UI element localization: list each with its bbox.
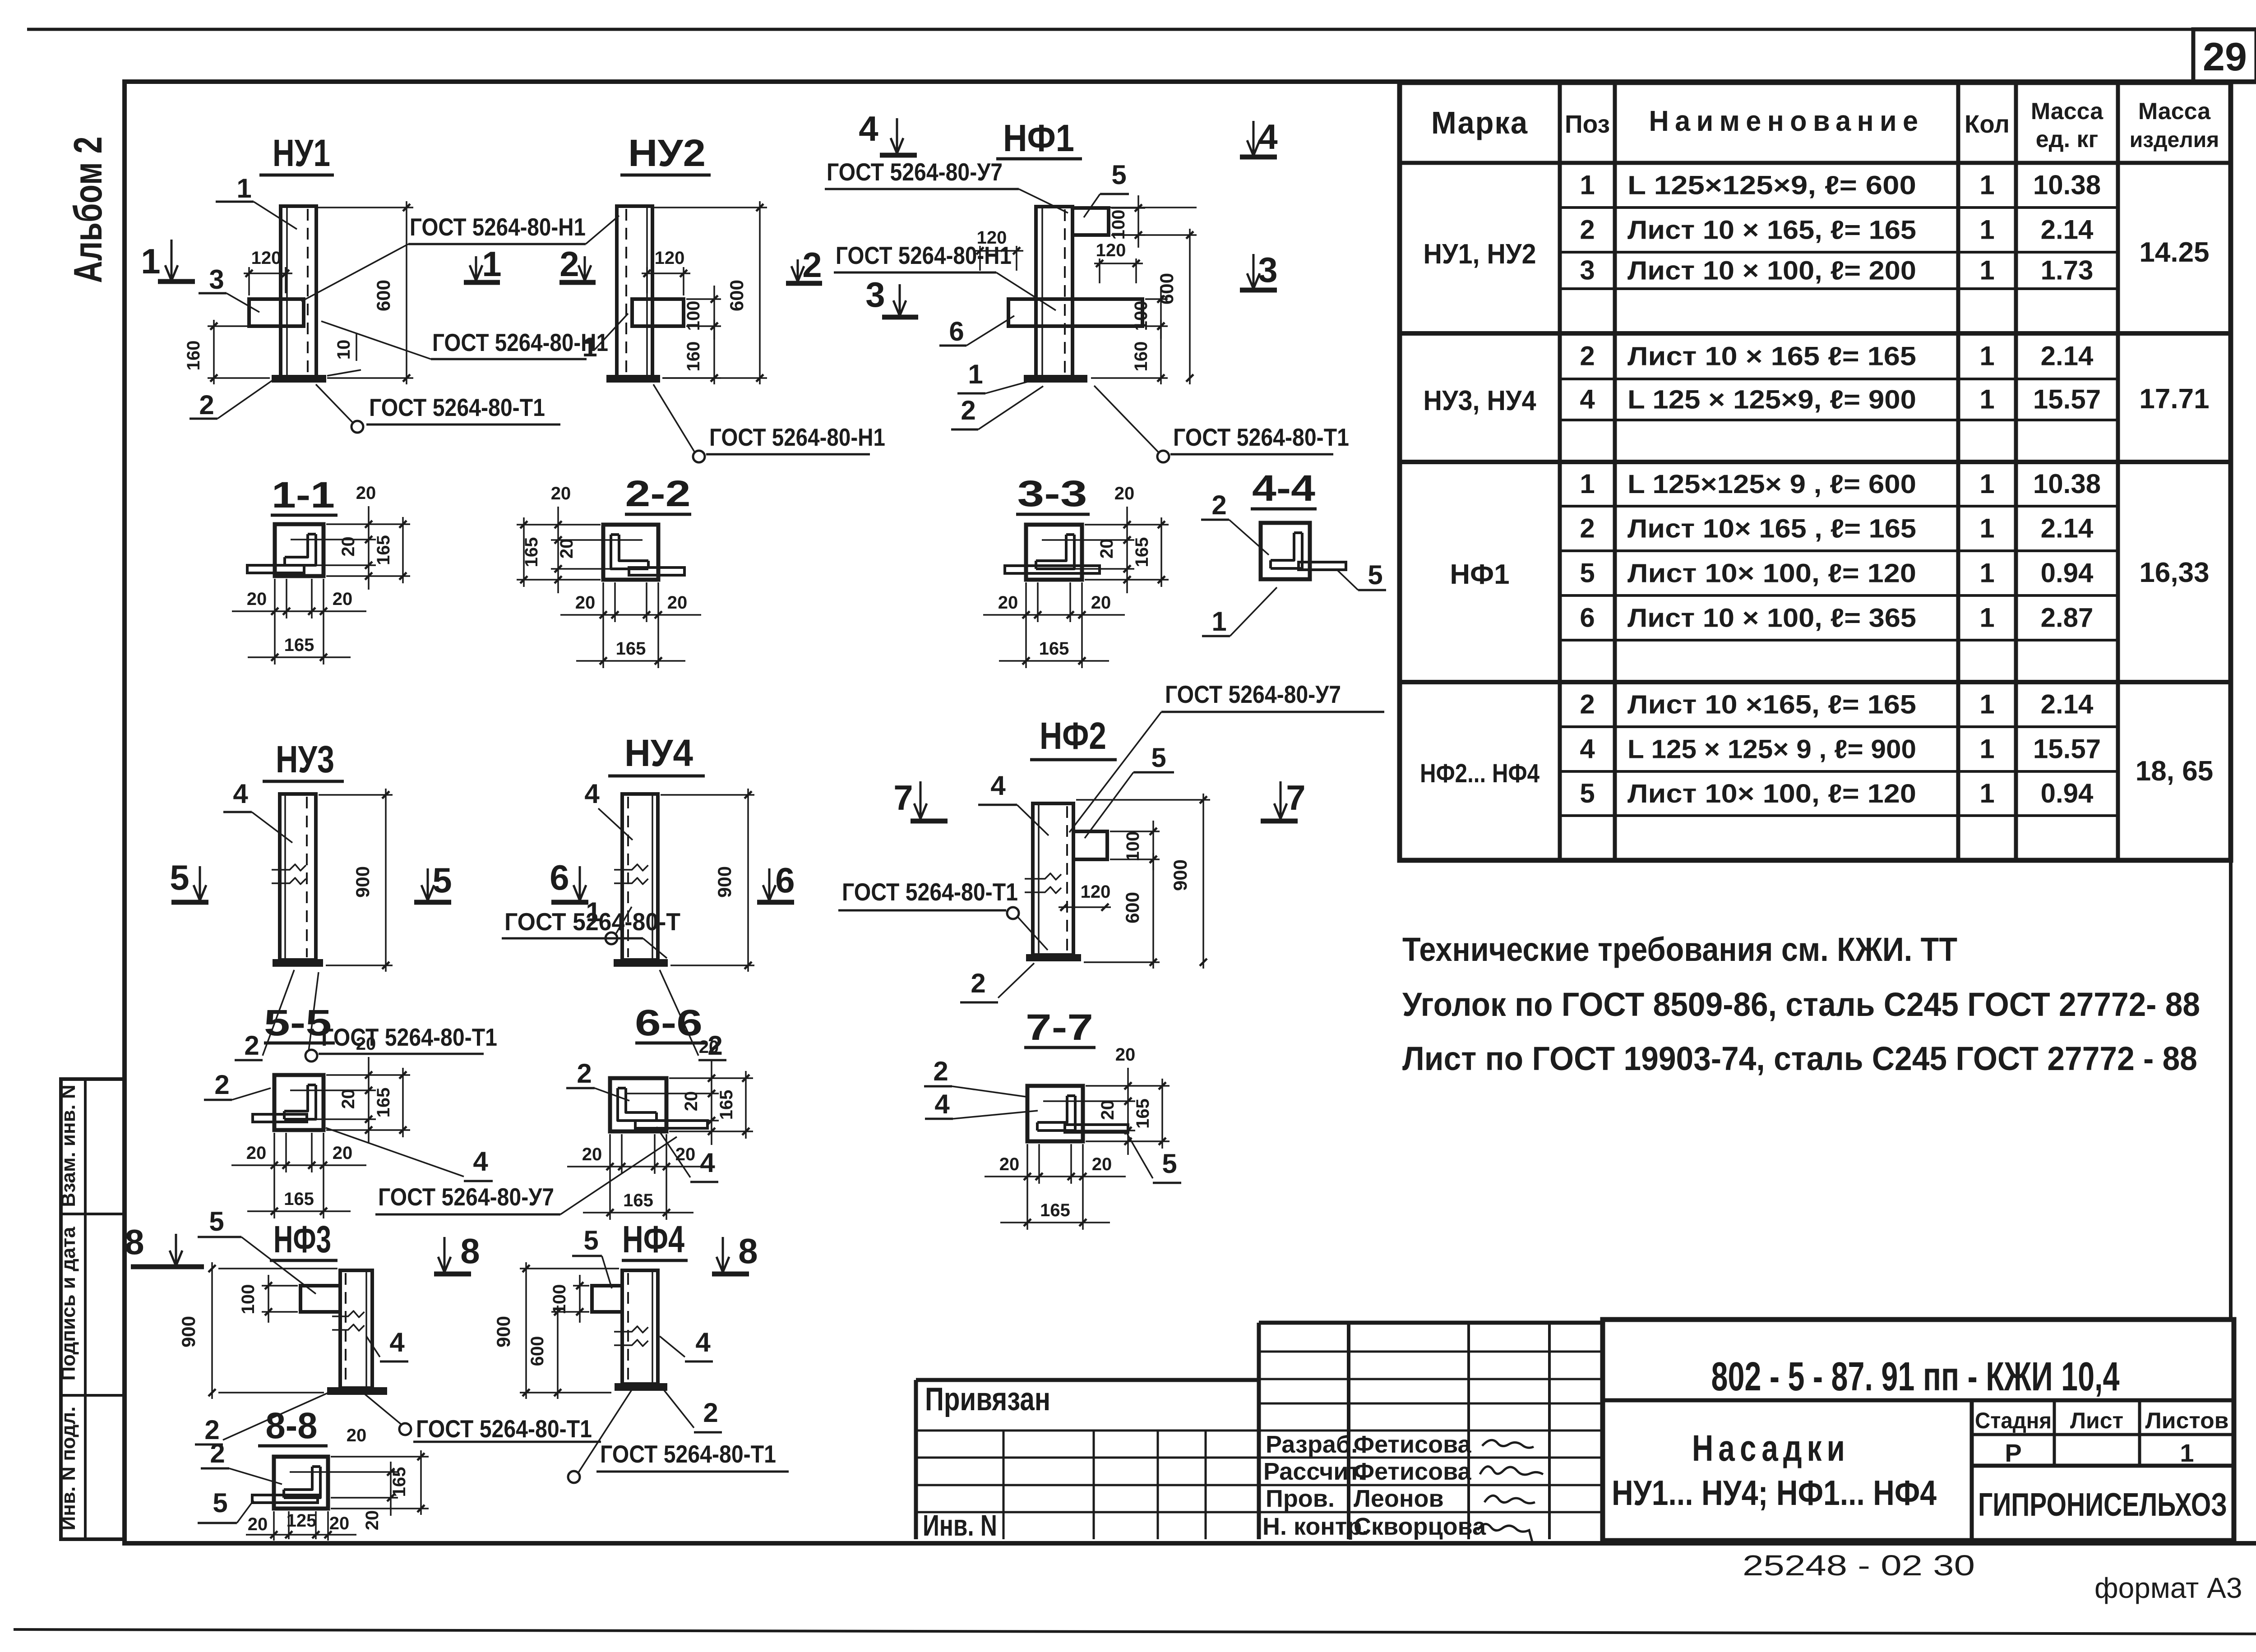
svg-text:20: 20 <box>582 1144 602 1164</box>
line from table to title block <box>2229 860 2233 1320</box>
svg-text:2: 2 <box>214 1070 229 1100</box>
parts table header row <box>1400 161 2231 165</box>
svg-text:ГИПРОНИСЕЛЬХОЗ: ГИПРОНИСЕЛЬХОЗ <box>1978 1487 2227 1523</box>
svg-text:165: 165 <box>1039 639 1069 659</box>
svg-text:165: 165 <box>522 537 541 568</box>
svg-text:ГОСТ 5264-80-Н1: ГОСТ 5264-80-Н1 <box>836 241 1012 269</box>
svg-text:Наименование: Наименование <box>1649 105 1924 137</box>
svg-text:Насадки: Насадки <box>1692 1428 1850 1469</box>
NF3 plate poz5 left <box>300 1286 340 1312</box>
svg-text:1: 1 <box>141 241 160 281</box>
svg-text:10.38: 10.38 <box>2033 170 2101 200</box>
svg-text:165: 165 <box>374 1088 393 1118</box>
svg-text:165: 165 <box>623 1191 653 1210</box>
svg-text:160: 160 <box>684 341 703 372</box>
svg-text:0.94: 0.94 <box>2041 778 2094 808</box>
svg-text:900: 900 <box>493 1316 514 1347</box>
title block signature section grid <box>1257 1323 1261 1539</box>
svg-text:НФ3: НФ3 <box>273 1218 331 1260</box>
svg-text:НФ1: НФ1 <box>1003 117 1074 159</box>
svg-text:ед. кг: ед. кг <box>2036 126 2099 152</box>
svg-text:4: 4 <box>700 1148 715 1178</box>
title block outer frame <box>1603 1320 2234 1541</box>
svg-text:100: 100 <box>238 1284 258 1315</box>
svg-text:3: 3 <box>865 275 885 314</box>
svg-text:5: 5 <box>213 1488 227 1518</box>
svg-text:Фетисова: Фетисова <box>1354 1431 1472 1458</box>
NU2 angle column <box>617 206 652 377</box>
svg-text:5: 5 <box>583 1225 598 1255</box>
svg-text:6: 6 <box>949 316 964 346</box>
NF4 dims 100 600 900 <box>573 1285 589 1287</box>
svg-text:Лист 10 × 100, ℓ= 365: Лист 10 × 100, ℓ= 365 <box>1627 604 1916 633</box>
section mark arrow 3 far right <box>1253 254 1255 289</box>
svg-text:4: 4 <box>389 1327 405 1357</box>
svg-text:1: 1 <box>1979 734 1994 764</box>
svg-text:900: 900 <box>1170 859 1191 891</box>
svg-text:Взам. инв. N: Взам. инв. N <box>57 1084 79 1207</box>
svg-text:20: 20 <box>362 1510 382 1531</box>
svg-text:Лист 10 ×165, ℓ= 165: Лист 10 ×165, ℓ= 165 <box>1627 690 1916 720</box>
section mark arrow 2 right of NU2 <box>797 259 799 281</box>
svg-text:2: 2 <box>961 395 975 425</box>
svg-text:802 - 5 - 87. 91 пп - КЖИ 10,: 802 - 5 - 87. 91 пп - КЖИ 10,4 <box>1711 1354 2120 1399</box>
svg-text:1: 1 <box>1979 384 1994 415</box>
svg-text:4: 4 <box>859 109 878 148</box>
svg-text:20: 20 <box>247 589 267 609</box>
section mark arrow 5 right of NU3 <box>427 868 429 900</box>
svg-text:20: 20 <box>347 1426 367 1445</box>
svg-text:Лист по ГОСТ 19903-74, стал: Лист по ГОСТ 19903-74, сталь С245 ГОСТ 2… <box>1402 1040 2197 1077</box>
svg-text:2: 2 <box>703 1398 718 1428</box>
svg-text:20: 20 <box>329 1514 350 1533</box>
svg-text:1.73: 1.73 <box>2041 255 2094 286</box>
svg-text:3: 3 <box>1258 250 1277 290</box>
svg-text:120: 120 <box>1081 882 1111 902</box>
svg-text:165: 165 <box>717 1090 736 1120</box>
section 3-3 angle section <box>1026 525 1082 580</box>
svg-text:2: 2 <box>1580 689 1595 720</box>
svg-text:120: 120 <box>655 248 685 268</box>
svg-text:4: 4 <box>1258 117 1277 157</box>
svg-text:20: 20 <box>551 484 571 503</box>
svg-text:1: 1 <box>1979 778 1994 808</box>
NU1 plate poz3 <box>249 299 304 326</box>
svg-text:165: 165 <box>1040 1200 1070 1220</box>
svg-text:165: 165 <box>389 1467 409 1497</box>
svg-text:20: 20 <box>1097 539 1117 559</box>
NF3 angle column <box>340 1270 372 1388</box>
svg-text:20: 20 <box>246 1143 267 1163</box>
page bottom edge line <box>14 1629 2256 1634</box>
svg-text:Альбом 2: Альбом 2 <box>65 137 110 283</box>
svg-text:165: 165 <box>284 635 314 655</box>
svg-text:125: 125 <box>287 1511 317 1531</box>
svg-text:10: 10 <box>334 340 354 360</box>
svg-text:1: 1 <box>1979 170 1994 200</box>
NF4 plate poz5 left <box>592 1286 622 1312</box>
svg-text:165: 165 <box>1133 1098 1153 1129</box>
NF1 angle column <box>1036 207 1073 377</box>
svg-text:2: 2 <box>199 390 214 420</box>
svg-text:ГОСТ 5264-80-Т1: ГОСТ 5264-80-Т1 <box>600 1440 776 1468</box>
svg-text:1-1: 1-1 <box>272 475 335 516</box>
NF1 dim 100 top right <box>1111 207 1145 209</box>
NU1 angle column <box>281 206 316 377</box>
svg-text:1: 1 <box>1979 603 1994 633</box>
svg-text:2: 2 <box>559 244 579 284</box>
svg-text:165: 165 <box>284 1189 314 1209</box>
title block left attachment section <box>914 1380 918 1539</box>
svg-text:L 125 × 125×9, ℓ= 900: L 125 × 125×9, ℓ= 900 <box>1627 385 1916 415</box>
svg-text:4: 4 <box>1580 734 1595 764</box>
svg-text:0.94: 0.94 <box>2041 558 2094 588</box>
svg-text:5: 5 <box>1162 1149 1177 1179</box>
svg-text:1: 1 <box>2180 1439 2194 1467</box>
svg-text:17.71: 17.71 <box>2139 383 2209 415</box>
svg-text:16,33: 16,33 <box>2139 557 2209 588</box>
NU1 dim 600 <box>318 207 413 208</box>
svg-text:Лист 10 × 165, ℓ= 165: Лист 10 × 165, ℓ= 165 <box>1627 216 1916 245</box>
svg-text:6: 6 <box>775 860 795 900</box>
svg-text:20: 20 <box>356 483 376 503</box>
svg-text:1: 1 <box>1979 513 1994 544</box>
svg-text:1: 1 <box>1979 215 1994 245</box>
section 7-7 angle section <box>1027 1086 1083 1141</box>
NU2 dim 160 <box>713 320 715 384</box>
svg-text:Р: Р <box>2005 1439 2021 1467</box>
svg-text:100: 100 <box>1131 301 1151 331</box>
svg-text:НФ4: НФ4 <box>622 1218 684 1260</box>
svg-text:600: 600 <box>1122 892 1143 923</box>
svg-text:8: 8 <box>460 1231 480 1271</box>
svg-text:7: 7 <box>1286 778 1305 817</box>
svg-text:15.57: 15.57 <box>2033 734 2101 764</box>
svg-text:НУ1, НУ2: НУ1, НУ2 <box>1424 239 1536 270</box>
svg-text:165: 165 <box>1132 537 1152 568</box>
svg-text:120: 120 <box>251 248 282 268</box>
svg-text:7-7: 7-7 <box>1026 1007 1093 1048</box>
NU3 angle column <box>280 794 316 960</box>
section 5-5 dims <box>326 1074 410 1076</box>
svg-text:Поз: Поз <box>1565 110 1610 138</box>
section 7-7 dims <box>1086 1085 1170 1087</box>
svg-text:4: 4 <box>695 1327 711 1357</box>
svg-text:600: 600 <box>527 1336 547 1366</box>
section mark arrow 8 right of NF4 <box>722 1237 724 1272</box>
NU4 dim 900 <box>661 794 754 796</box>
svg-text:Лист 10 × 165 ℓ= 165: Лист 10 × 165 ℓ= 165 <box>1627 342 1916 371</box>
svg-text:5: 5 <box>432 860 452 900</box>
svg-text:20: 20 <box>333 589 353 609</box>
svg-text:2.87: 2.87 <box>2041 603 2094 633</box>
svg-text:1: 1 <box>586 897 601 927</box>
svg-text:Кол: Кол <box>1965 110 2010 138</box>
NF2 dim 900 <box>1076 799 1210 801</box>
section mark arrow 1 right of NU1 <box>475 256 477 281</box>
NF3 dim 900 <box>218 1268 337 1269</box>
section 1-1 angle section <box>275 524 324 576</box>
NF1 dim 900 right <box>1076 207 1197 208</box>
section 8-8 angle section <box>274 1457 328 1509</box>
svg-text:Скворцова: Скворцова <box>1354 1513 1486 1540</box>
svg-text:Инв. N: Инв. N <box>923 1509 997 1542</box>
svg-text:Привязан: Привязан <box>925 1381 1050 1417</box>
svg-text:600: 600 <box>373 280 394 311</box>
svg-text:1: 1 <box>1580 170 1595 200</box>
section 8-8 bottom dims 20 125 20 <box>273 1511 275 1541</box>
svg-text:14.25: 14.25 <box>2139 237 2209 268</box>
title block stage cells <box>1972 1433 2234 1436</box>
svg-text:2: 2 <box>244 1030 259 1061</box>
svg-text:165: 165 <box>616 639 646 659</box>
svg-text:5: 5 <box>170 858 189 897</box>
NF2 angle column <box>1033 803 1073 955</box>
svg-text:20: 20 <box>333 1143 353 1163</box>
svg-text:20: 20 <box>1115 1045 1136 1065</box>
svg-text:НУ4: НУ4 <box>624 732 693 774</box>
svg-text:900: 900 <box>352 866 373 898</box>
section 2-2 angle section <box>603 525 658 580</box>
svg-text:5: 5 <box>209 1206 224 1237</box>
svg-text:25248 - 02 30: 25248 - 02 30 <box>1743 1549 1975 1582</box>
NU1 dim 10 <box>327 370 361 376</box>
svg-text:Технические требования см.: Технические требования см. КЖИ. ТТ <box>1402 931 1957 968</box>
svg-text:6: 6 <box>1580 603 1595 633</box>
svg-text:1: 1 <box>482 244 501 284</box>
svg-text:100: 100 <box>1123 831 1143 862</box>
svg-text:Стадня: Стадня <box>1975 1408 2052 1433</box>
svg-text:1: 1 <box>582 332 597 362</box>
section 6-6 angle section <box>610 1078 666 1131</box>
NF2 plate poz5 right <box>1073 831 1107 859</box>
section 2-2 dims <box>517 524 601 526</box>
section 8-8 right dims <box>331 1456 429 1458</box>
svg-text:165: 165 <box>374 535 393 565</box>
svg-text:1: 1 <box>1979 255 1994 286</box>
svg-text:6: 6 <box>550 858 569 897</box>
svg-text:НУ2: НУ2 <box>628 132 706 174</box>
svg-text:20: 20 <box>356 1034 376 1054</box>
svg-text:Лист 10× 165 , ℓ= 165: Лист 10× 165 , ℓ= 165 <box>1627 514 1916 544</box>
NF2 dim 100 <box>1110 831 1160 832</box>
NF1 plate poz5 top right <box>1073 208 1109 235</box>
svg-text:4: 4 <box>934 1089 950 1119</box>
svg-text:НУ3, НУ4: НУ3, НУ4 <box>1424 385 1536 416</box>
svg-text:1: 1 <box>236 173 251 203</box>
svg-text:НУ1... НУ4; НФ1... НФ4: НУ1... НУ4; НФ1... НФ4 <box>1612 1473 1937 1513</box>
svg-text:Масса: Масса <box>2138 98 2211 125</box>
svg-text:2: 2 <box>1580 341 1595 371</box>
svg-text:1: 1 <box>1580 469 1595 499</box>
svg-text:20: 20 <box>998 593 1018 613</box>
svg-text:2: 2 <box>577 1058 592 1089</box>
NF3 dim 100 <box>262 1285 298 1287</box>
NF1 dim 160 <box>1160 320 1162 384</box>
svg-text:20: 20 <box>557 539 577 559</box>
NU2 dim 100 <box>686 298 721 300</box>
svg-text:1: 1 <box>1979 689 1994 720</box>
svg-text:формат А3: формат А3 <box>2094 1572 2242 1604</box>
svg-text:3: 3 <box>1580 255 1595 286</box>
svg-text:L 125×125×9, ℓ= 600: L 125×125×9, ℓ= 600 <box>1627 171 1916 200</box>
svg-text:160: 160 <box>184 341 203 371</box>
svg-text:900: 900 <box>178 1316 199 1347</box>
svg-text:Листов: Листов <box>2145 1408 2229 1433</box>
svg-text:160: 160 <box>1131 341 1151 372</box>
svg-text:2: 2 <box>1580 215 1595 245</box>
svg-text:2: 2 <box>1580 513 1595 544</box>
svg-text:4: 4 <box>990 771 1006 801</box>
svg-text:ГОСТ 5264-80-Т1: ГОСТ 5264-80-Т1 <box>842 878 1018 906</box>
NU4 angle column <box>622 794 658 960</box>
section mark arrow 4 far right <box>1253 121 1255 156</box>
NF1 dim 600 <box>1111 234 1197 236</box>
svg-text:20: 20 <box>675 1144 696 1164</box>
svg-text:4: 4 <box>1580 384 1595 415</box>
svg-text:НФ2... НФ4: НФ2... НФ4 <box>1420 759 1539 788</box>
svg-text:ГОСТ 5264-80-Т1: ГОСТ 5264-80-Т1 <box>1173 423 1349 451</box>
section 1-1 dims <box>326 523 410 525</box>
title block name cell <box>1970 1400 1974 1541</box>
svg-text:НФ2: НФ2 <box>1040 715 1106 757</box>
svg-text:L 125×125× 9 , ℓ= 600: L 125×125× 9 , ℓ= 600 <box>1627 470 1916 499</box>
svg-text:2: 2 <box>210 1438 225 1468</box>
svg-text:20: 20 <box>681 1091 701 1112</box>
svg-text:29: 29 <box>2203 34 2247 79</box>
section 5-5 angle section <box>274 1075 324 1130</box>
svg-text:Марка: Марка <box>1431 105 1528 140</box>
svg-text:Леонов: Леонов <box>1354 1485 1444 1512</box>
svg-text:L 125 × 125× 9 , ℓ= 900: L 125 × 125× 9 , ℓ= 900 <box>1627 735 1916 764</box>
svg-text:18, 65: 18, 65 <box>2136 756 2213 787</box>
svg-text:100: 100 <box>684 301 703 331</box>
svg-text:Лист 10× 100, ℓ= 120: Лист 10× 100, ℓ= 120 <box>1627 779 1916 808</box>
svg-text:4: 4 <box>233 779 248 809</box>
svg-text:20: 20 <box>699 1037 719 1057</box>
svg-text:3-3: 3-3 <box>1017 473 1087 514</box>
svg-text:20: 20 <box>1092 1154 1112 1174</box>
svg-text:ГОСТ 5264-80-У7: ГОСТ 5264-80-У7 <box>1165 680 1341 708</box>
section mark arrow 6 right of NU4 <box>768 868 771 900</box>
svg-text:ГОСТ 5264-80-Н1: ГОСТ 5264-80-Н1 <box>709 423 885 451</box>
svg-text:5: 5 <box>1111 160 1126 190</box>
svg-text:4: 4 <box>473 1146 488 1177</box>
svg-text:Н. контр.: Н. контр. <box>1262 1513 1368 1540</box>
section 3-3 dims <box>1085 524 1169 526</box>
svg-text:20: 20 <box>248 1514 268 1534</box>
parts table row lines <box>1560 206 2118 209</box>
section 6-6 dims <box>669 1077 753 1079</box>
signature squiggles <box>1482 1440 1534 1448</box>
page top edge line <box>27 28 2256 31</box>
svg-text:2.14: 2.14 <box>2041 689 2094 720</box>
svg-text:Фетисова: Фетисова <box>1354 1458 1472 1485</box>
svg-text:Подпись и дата: Подпись и дата <box>57 1227 79 1380</box>
svg-text:2: 2 <box>802 245 822 285</box>
section mark arrow 7 right of NF2 <box>1280 781 1282 819</box>
svg-text:8: 8 <box>125 1222 144 1262</box>
svg-text:20: 20 <box>1091 593 1111 613</box>
svg-text:8-8: 8-8 <box>266 1405 318 1446</box>
NF1 dim 100 at plate6 <box>1145 298 1168 300</box>
svg-text:1: 1 <box>1979 341 1994 371</box>
svg-text:2: 2 <box>933 1056 948 1086</box>
svg-text:Лист 10 × 100, ℓ= 200: Лист 10 × 100, ℓ= 200 <box>1627 256 1916 286</box>
svg-text:6-6: 6-6 <box>635 1002 703 1043</box>
svg-text:НФ1: НФ1 <box>1450 559 1509 590</box>
svg-text:5-5: 5-5 <box>264 1002 332 1043</box>
svg-text:1: 1 <box>968 359 983 389</box>
svg-text:1: 1 <box>1979 469 1994 499</box>
svg-text:20: 20 <box>667 593 688 613</box>
svg-text:2.14: 2.14 <box>2041 215 2094 245</box>
svg-text:10.38: 10.38 <box>2033 469 2101 499</box>
svg-text:3: 3 <box>209 264 224 295</box>
svg-text:Уголок по ГОСТ 8509-86, ста: Уголок по ГОСТ 8509-86, сталь С245 ГОСТ … <box>1402 986 2200 1023</box>
svg-text:Рассчит.: Рассчит. <box>1263 1458 1365 1485</box>
svg-text:изделия: изделия <box>2130 128 2219 152</box>
svg-text:1: 1 <box>1979 558 1994 588</box>
svg-text:600: 600 <box>1156 273 1177 305</box>
svg-text:Инв. N подл.: Инв. N подл. <box>57 1407 79 1531</box>
svg-text:ГОСТ 5264-80-Т1: ГОСТ 5264-80-Т1 <box>321 1023 497 1051</box>
svg-text:4: 4 <box>584 779 600 809</box>
NU1 dim 160 <box>208 325 247 327</box>
section mark arrow 8 mid <box>444 1237 446 1272</box>
svg-text:20: 20 <box>338 1089 358 1109</box>
svg-text:2.14: 2.14 <box>2041 341 2094 371</box>
svg-text:2: 2 <box>971 968 985 998</box>
svg-text:600: 600 <box>726 280 747 311</box>
NF4 angle column <box>622 1270 658 1384</box>
svg-text:5: 5 <box>1368 560 1382 590</box>
svg-text:ГОСТ 5264-80-У7: ГОСТ 5264-80-У7 <box>827 158 1003 186</box>
svg-text:Лист: Лист <box>2070 1408 2123 1433</box>
svg-text:5: 5 <box>1151 743 1166 773</box>
svg-text:5: 5 <box>1580 778 1595 808</box>
NF2 dim 600 <box>1152 853 1154 969</box>
svg-text:7: 7 <box>893 778 913 817</box>
svg-text:ГОСТ 5264-80-Н1: ГОСТ 5264-80-Н1 <box>410 213 586 241</box>
svg-text:1: 1 <box>1211 606 1226 637</box>
svg-text:20: 20 <box>999 1154 1020 1174</box>
NU1 section mark 1 left <box>171 240 173 281</box>
page number box 29 <box>2193 29 2256 82</box>
svg-text:Пров.: Пров. <box>1266 1485 1335 1512</box>
NU3 dim 900 <box>319 794 393 796</box>
svg-text:Масса: Масса <box>2031 98 2103 125</box>
svg-text:ГОСТ 5264-80-Т1: ГОСТ 5264-80-Т1 <box>369 393 545 421</box>
svg-text:2-2: 2-2 <box>625 473 691 514</box>
NF1 plate poz6 <box>1008 299 1142 326</box>
left margin boxes <box>61 1079 125 1539</box>
svg-text:120: 120 <box>1096 240 1126 260</box>
svg-text:4-4: 4-4 <box>1252 468 1315 509</box>
svg-text:Лист 10× 100, ℓ= 120: Лист 10× 100, ℓ= 120 <box>1627 559 1916 588</box>
svg-text:15.57: 15.57 <box>2033 384 2101 415</box>
svg-text:20: 20 <box>575 593 596 613</box>
parts table frame <box>1400 83 2231 860</box>
svg-text:ГОСТ 5264-80-У7: ГОСТ 5264-80-У7 <box>378 1183 554 1211</box>
svg-text:ГОСТ 5264-80-Т1: ГОСТ 5264-80-Т1 <box>416 1415 592 1443</box>
svg-text:20: 20 <box>338 536 358 557</box>
svg-text:8: 8 <box>738 1231 758 1271</box>
NU2 dim 600 <box>654 207 767 208</box>
title block document number cell <box>1603 1398 2234 1403</box>
section 4-4 angle section <box>1261 523 1310 579</box>
svg-text:НУ1: НУ1 <box>273 132 330 174</box>
